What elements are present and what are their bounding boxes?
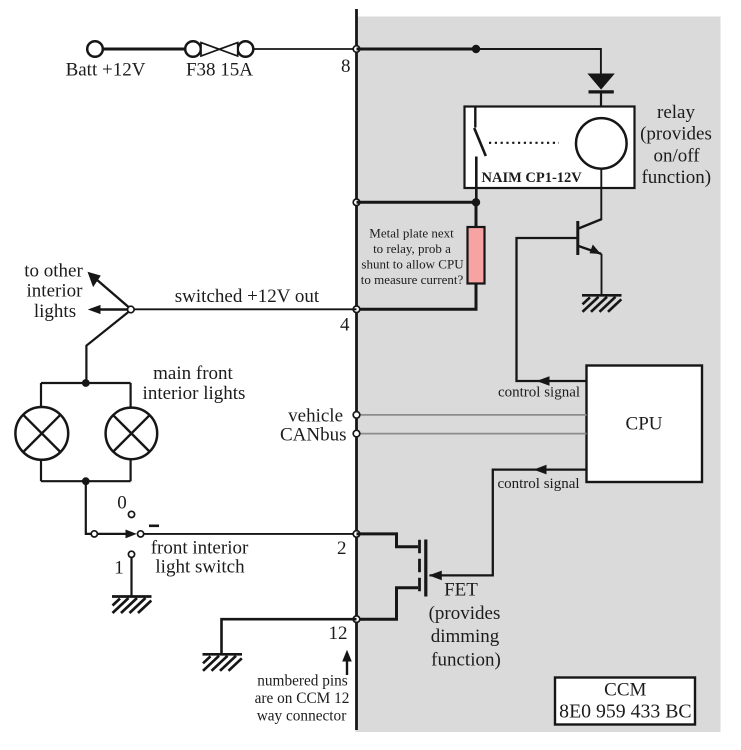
- arrow: control signal 2 (at CPU exit): [534, 465, 547, 475]
- wire: FET source to pin 12 (thick): [357, 588, 419, 620]
- svg-text:to measure current?: to measure current?: [361, 272, 464, 287]
- svg-text:1: 1: [114, 558, 124, 579]
- svg-text:on/off: on/off: [653, 146, 700, 167]
- note: metal plate annotation: [361, 226, 464, 288]
- wire: contact 1 to ground: [130, 558, 132, 597]
- transistor Q2 (relay driver): [578, 169, 602, 295]
- svg-text:light switch: light switch: [155, 557, 245, 578]
- note: numbered pins are on CCM 12 way connector: [255, 673, 350, 725]
- wire: junction to shunt: [475, 202, 478, 228]
- svg-text:to relay, prob a: to relay, prob a: [373, 241, 451, 256]
- svg-text:interior lights: interior lights: [143, 383, 246, 404]
- CCM part number box: [555, 678, 695, 725]
- svg-text:way connector: way connector: [257, 708, 347, 725]
- lamp L2 (right): [106, 408, 158, 460]
- relay actuator dotted link: [489, 142, 559, 144]
- wire: lamp stubs top: [40, 383, 42, 407]
- wire: shunt to pin 4: [357, 284, 477, 310]
- ground: transistor emitter: [582, 295, 622, 312]
- arrow: control signal 1: [537, 376, 550, 386]
- wire: node down to lamp pair: [86, 312, 129, 384]
- pin 4: [353, 306, 360, 313]
- relay coil: [576, 118, 627, 169]
- svg-text:2: 2: [337, 538, 347, 559]
- pin 8: [353, 46, 360, 53]
- svg-text:12: 12: [329, 623, 348, 644]
- svg-text:interior: interior: [27, 281, 84, 302]
- label front interior light switch: [151, 538, 249, 578]
- svg-text:control signal: control signal: [497, 476, 579, 492]
- svg-text:4: 4: [340, 315, 350, 336]
- svg-text:lights: lights: [34, 301, 76, 322]
- node: junction at relay switch top: [472, 45, 480, 53]
- fuse F38 15A: [185, 41, 253, 57]
- svg-text:function): function): [431, 650, 501, 671]
- svg-text:main front: main front: [153, 363, 233, 384]
- label to other interior lights: [24, 261, 83, 323]
- svg-text:to other: to other: [24, 261, 83, 282]
- svg-text:0: 0: [117, 493, 127, 514]
- relay switch contact: [474, 107, 486, 203]
- svg-text:function): function): [641, 167, 711, 188]
- node: bus connection below relay (no pin number): [353, 199, 360, 206]
- pin 2: [353, 531, 360, 538]
- svg-text:control signal: control signal: [498, 385, 580, 401]
- FET Q1: [420, 540, 426, 597]
- switch position 0 contact: [128, 511, 134, 517]
- svg-text:switched +12V out: switched +12V out: [175, 286, 320, 307]
- svg-text:Metal plate next: Metal plate next: [369, 226, 454, 241]
- label FET (provides dimming function): [429, 580, 501, 671]
- node: interior light distribution: [128, 306, 135, 313]
- arrow: to other interior lights (up-left): [88, 272, 129, 307]
- wire: lamps to switch common: [86, 481, 91, 534]
- wire: switch to pin 2: [144, 533, 357, 535]
- label main front interior lights: [143, 363, 246, 404]
- svg-text:CPU: CPU: [626, 414, 663, 435]
- svg-text:Batt +12V: Batt +12V: [66, 60, 146, 81]
- switch position 1 contact: [128, 551, 134, 557]
- switch position - mark: [149, 524, 159, 527]
- wire: pin 2 to FET drain (thick): [357, 534, 419, 547]
- label relay (provides on/off function): [640, 102, 712, 188]
- diode D1 (flyback): [587, 74, 614, 119]
- relay NAIM CP1-12V box: [465, 107, 635, 189]
- svg-text:dimming: dimming: [431, 626, 500, 647]
- pin 12: [353, 616, 360, 623]
- svg-text:CANbus: CANbus: [280, 425, 347, 446]
- svg-text:CCM: CCM: [604, 680, 646, 701]
- svg-text:NAIM CP1-12V: NAIM CP1-12V: [482, 170, 583, 186]
- CPU U1: [587, 366, 703, 483]
- svg-text:vehicle: vehicle: [288, 406, 343, 427]
- ground: pin 12 return: [203, 654, 243, 671]
- shunt resistor (metal plate): [468, 227, 485, 284]
- svg-text:numbered pins: numbered pins: [257, 673, 348, 690]
- node: junction relay switch / shunt: [472, 198, 480, 206]
- svg-text:8: 8: [341, 56, 351, 77]
- node: CANbus pins: [353, 412, 360, 419]
- wire: pin 4 to distribution node: [134, 308, 357, 310]
- wire: pin 12 to ground: [222, 619, 357, 653]
- svg-text:relay: relay: [657, 102, 695, 123]
- wire: lamp bottom rail: [41, 480, 131, 482]
- battery terminal Batt +12V: [87, 41, 103, 57]
- CCM module shaded area: [356, 17, 721, 733]
- svg-text:(provides: (provides: [429, 603, 501, 624]
- node: lamp top junction: [82, 379, 90, 387]
- wire: battery to fuse: [104, 48, 186, 51]
- svg-text:shunt to allow CPU: shunt to allow CPU: [361, 257, 464, 272]
- svg-text:FET: FET: [444, 580, 478, 601]
- svg-text:(provides: (provides: [640, 124, 712, 145]
- wire: lamp stubs bottom: [40, 460, 42, 481]
- wire: vehicle CANbus upper: [358, 414, 587, 416]
- wire: CPU control to transistor base: [517, 238, 587, 381]
- node: lamp bottom junction: [82, 477, 90, 485]
- wire: lamp top rail: [41, 382, 131, 384]
- svg-text:front interior: front interior: [151, 538, 249, 559]
- ground: switch position 1: [112, 597, 152, 614]
- wire: junction to diode branch: [476, 49, 601, 74]
- arrow: connector note pointer: [342, 650, 352, 675]
- wire: CCM 12-way connector bus (vertical): [355, 9, 358, 730]
- svg-text:8E0 959 433 BC: 8E0 959 433 BC: [559, 701, 691, 723]
- svg-text:F38 15A: F38 15A: [186, 60, 253, 81]
- arrow: control signal 2 (at FET gate): [429, 571, 442, 581]
- wire: vehicle CANbus lower: [358, 433, 587, 435]
- wire: CPU control to FET gate: [430, 470, 587, 576]
- wire: pin 8 to relay switch (thick): [357, 48, 477, 51]
- wire: bus to shunt junction (thick): [357, 201, 477, 204]
- wire: fuse to pin 8: [254, 48, 357, 50]
- switch S1 front interior light switch: [91, 530, 143, 539]
- lamp L1 (left): [15, 407, 68, 460]
- svg-text:are on CCM 12: are on CCM 12: [255, 690, 350, 707]
- arrow: to other interior lights (left): [88, 305, 128, 314]
